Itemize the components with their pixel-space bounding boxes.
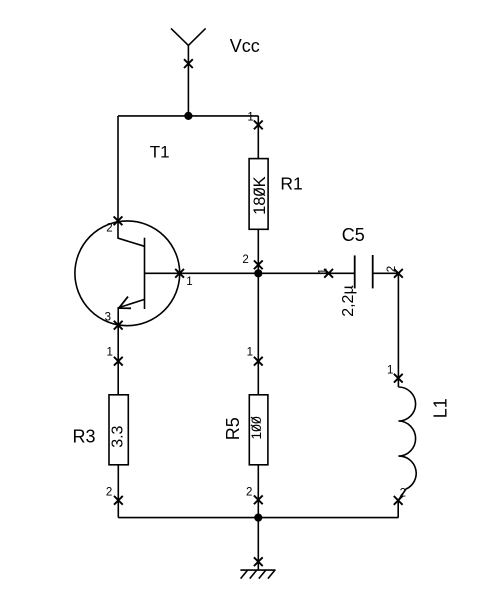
R1 value zero slash xyxy=(254,189,265,196)
svg-text:R1: R1 xyxy=(280,174,302,194)
capacitor C5 xyxy=(355,255,373,288)
wire ground stub xyxy=(257,518,259,571)
R5 value 100 xyxy=(248,416,264,440)
T1 name label xyxy=(150,143,170,162)
svg-text:2: 2 xyxy=(246,487,252,499)
T1 pin 3 number xyxy=(105,312,111,324)
junction bottom rail xyxy=(254,514,262,522)
R1 pin 2 endpoint X xyxy=(254,260,263,269)
wire bottom rail xyxy=(118,517,398,519)
svg-text:R5: R5 xyxy=(223,417,243,440)
R3 pin 2 number xyxy=(106,487,112,499)
wire top rail xyxy=(118,115,258,117)
R1 pin 1 number xyxy=(247,112,253,124)
R5 pin 2 endpoint X xyxy=(254,495,263,504)
ground pin endpoint X xyxy=(254,557,263,566)
svg-text:3.3: 3.3 xyxy=(110,425,127,447)
svg-text:2,2µ: 2,2µ xyxy=(340,285,357,316)
L1 pin 2 endpoint X xyxy=(394,496,403,505)
svg-text:R3: R3 xyxy=(73,426,96,446)
R5 value zero slashes xyxy=(251,417,261,431)
svg-text:2: 2 xyxy=(106,487,112,499)
wire left drop to T1 collector xyxy=(117,116,119,221)
C5 pin 1 number xyxy=(318,268,330,274)
svg-text:2: 2 xyxy=(386,266,398,272)
T1 pin 1 number xyxy=(186,276,192,288)
R5 name label xyxy=(223,417,243,440)
R5 pin 1 endpoint X xyxy=(254,357,263,366)
svg-text:1: 1 xyxy=(318,268,330,274)
svg-text:1: 1 xyxy=(106,347,112,359)
resistor R1 body xyxy=(249,159,268,230)
svg-text:1: 1 xyxy=(186,276,192,288)
junction base node xyxy=(254,269,262,277)
R3 pin 1 number xyxy=(106,347,112,359)
L1 pin 1 endpoint X xyxy=(394,374,403,383)
inductor L1 xyxy=(398,387,416,500)
wire base node down to R5 xyxy=(257,273,259,395)
ground symbol xyxy=(240,570,275,579)
T1 pin 3 endpoint X (emitter) xyxy=(114,321,123,330)
svg-text:3: 3 xyxy=(105,312,111,324)
R1 pin 2 number xyxy=(242,254,248,266)
wire R3 bottom lead xyxy=(117,465,119,518)
Vcc net label xyxy=(230,36,260,56)
resistor R3 body xyxy=(109,395,128,465)
T1 pin 2 number xyxy=(106,222,112,234)
svg-text:Vcc: Vcc xyxy=(230,36,260,56)
svg-text:2: 2 xyxy=(242,254,248,266)
Vcc pin endpoint X xyxy=(184,59,193,68)
resistor R5 body xyxy=(249,395,268,465)
svg-text:1: 1 xyxy=(247,112,253,124)
svg-text:C5: C5 xyxy=(342,225,365,245)
svg-text:T1: T1 xyxy=(150,143,170,162)
C5 pin 1 endpoint X xyxy=(324,269,333,278)
wire emitter drop to R3 xyxy=(117,325,119,395)
R3 name label xyxy=(73,426,96,446)
transistor T1 xyxy=(75,221,180,326)
R3 value 3.3 xyxy=(110,425,127,447)
wire R1 top lead from rail xyxy=(257,116,259,159)
wire Vcc stub down to top rail xyxy=(187,45,189,116)
R1 pin 1 endpoint X xyxy=(254,121,263,130)
wire L1 bottom stub xyxy=(397,500,399,517)
L1 name label xyxy=(430,398,450,418)
T1 pin 2 endpoint X (collector) xyxy=(114,216,123,225)
C5 pin 2 endpoint X xyxy=(394,269,403,278)
R1 value 180K xyxy=(251,176,269,215)
R3 pin 2 endpoint X xyxy=(114,496,123,505)
Vcc supply symbol (antenna Y) xyxy=(171,28,206,45)
R3 pin 1 endpoint X xyxy=(114,357,123,366)
svg-text:1: 1 xyxy=(247,347,253,359)
C5 value 2,2u xyxy=(340,285,357,316)
svg-text:180K: 180K xyxy=(251,176,269,215)
R1 name label xyxy=(280,174,302,194)
svg-text:L1: L1 xyxy=(430,398,450,418)
junction top rail / Vcc xyxy=(184,112,192,120)
L1 pin 2 number xyxy=(400,487,406,499)
C5 name label xyxy=(342,225,365,245)
wire C5 right to L1 xyxy=(373,273,399,387)
L1 pin 1 number xyxy=(387,365,393,377)
wire R1 bottom lead xyxy=(257,229,259,273)
svg-text:1: 1 xyxy=(387,365,393,377)
svg-text:2: 2 xyxy=(106,222,112,234)
C5 pin 2 number xyxy=(386,266,398,272)
wire R5 bottom lead xyxy=(257,465,259,518)
R5 pin 2 number xyxy=(246,487,252,499)
T1 pin 1 endpoint X (base) xyxy=(175,269,184,278)
wire base net horizontal xyxy=(180,272,355,274)
svg-text:2: 2 xyxy=(400,487,406,499)
R5 pin 1 number xyxy=(247,347,253,359)
